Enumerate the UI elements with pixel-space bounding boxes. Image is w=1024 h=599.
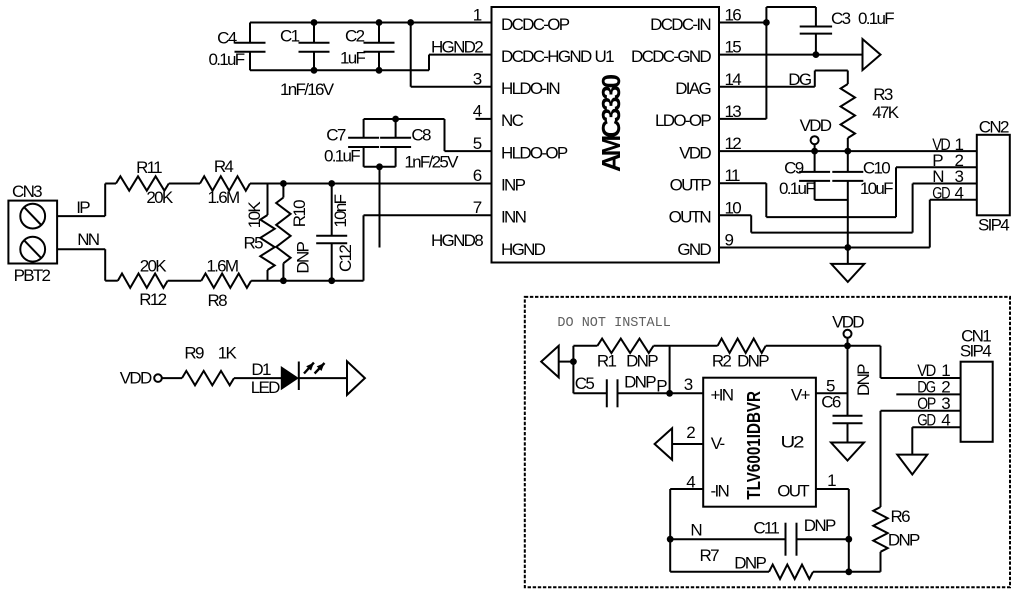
svg-text:HLDO-IN: HLDO-IN (501, 79, 559, 98)
svg-text:C4: C4 (217, 29, 237, 48)
svg-text:20K: 20K (146, 188, 174, 207)
svg-text:3: 3 (684, 375, 693, 394)
svg-text:13: 13 (725, 102, 742, 121)
svg-text:1.6M: 1.6M (206, 256, 238, 275)
svg-text:NN: NN (77, 230, 99, 249)
svg-text:DCDC-OP: DCDC-OP (501, 15, 570, 34)
svg-text:P: P (656, 377, 667, 396)
svg-text:47K: 47K (872, 103, 900, 122)
svg-text:CN3: CN3 (12, 182, 42, 201)
svg-text:4: 4 (955, 183, 964, 202)
svg-text:3: 3 (473, 70, 482, 89)
svg-text:OUTN: OUTN (669, 208, 711, 227)
svg-text:DNP: DNP (734, 553, 766, 572)
svg-text:HGND: HGND (501, 240, 546, 259)
svg-text:LDO-OP: LDO-OP (655, 111, 711, 130)
svg-text:R8: R8 (208, 291, 228, 310)
svg-text:R4: R4 (214, 157, 234, 176)
svg-text:DCDC-HGND: DCDC-HGND (501, 47, 592, 66)
svg-text:10uF: 10uF (860, 179, 893, 198)
svg-text:C7: C7 (326, 125, 346, 144)
svg-text:C10: C10 (863, 158, 890, 177)
svg-text:4: 4 (686, 473, 695, 492)
svg-text:1nF/25V: 1nF/25V (404, 153, 459, 172)
svg-text:INP: INP (501, 176, 526, 195)
svg-text:9: 9 (725, 231, 734, 250)
svg-text:1: 1 (473, 5, 482, 24)
svg-text:GD: GD (917, 410, 936, 429)
svg-text:DNP: DNP (624, 373, 656, 392)
svg-text:7: 7 (473, 198, 482, 217)
svg-text:15: 15 (725, 38, 742, 57)
svg-text:VDD: VDD (120, 368, 152, 387)
svg-text:R9: R9 (184, 344, 204, 363)
svg-text:R11: R11 (136, 158, 162, 177)
svg-text:C2: C2 (345, 27, 365, 46)
svg-text:14: 14 (725, 70, 742, 89)
svg-text:R12: R12 (139, 290, 166, 309)
svg-text:0.1uF: 0.1uF (779, 179, 815, 198)
svg-text:C11: C11 (753, 519, 779, 538)
svg-text:HGND8: HGND8 (431, 231, 483, 250)
svg-text:C8: C8 (411, 125, 431, 144)
svg-text:DNP: DNP (888, 530, 920, 549)
svg-text:VDD: VDD (679, 143, 711, 162)
svg-text:4: 4 (473, 102, 482, 121)
svg-text:5: 5 (473, 134, 482, 153)
svg-text:U2: U2 (781, 433, 804, 452)
svg-text:12: 12 (725, 134, 742, 153)
svg-text:1uF: 1uF (340, 48, 366, 67)
svg-text:HGND2: HGND2 (431, 37, 483, 56)
svg-text:C12: C12 (336, 245, 355, 272)
svg-text:1nF/16V: 1nF/16V (280, 80, 335, 99)
svg-text:5: 5 (826, 376, 835, 395)
svg-text:0.1uF: 0.1uF (858, 9, 894, 28)
svg-text:V+: V+ (791, 385, 811, 404)
svg-text:C3: C3 (831, 9, 851, 28)
svg-text:11: 11 (725, 166, 740, 185)
svg-text:20K: 20K (140, 256, 168, 275)
svg-text:V-: V- (711, 434, 725, 453)
svg-text:OUTP: OUTP (670, 176, 712, 195)
svg-text:1K: 1K (218, 344, 238, 363)
svg-text:VDD: VDD (832, 312, 864, 331)
svg-text:DIAG: DIAG (675, 79, 710, 98)
svg-text:HLDO-OP: HLDO-OP (501, 143, 568, 162)
svg-text:16: 16 (725, 6, 742, 25)
svg-text:U1: U1 (595, 47, 615, 66)
svg-text:DNP: DNP (293, 241, 312, 273)
svg-text:INN: INN (501, 208, 526, 227)
svg-text:DNP: DNP (626, 352, 658, 371)
svg-text:R6: R6 (891, 507, 911, 526)
svg-text:R7: R7 (700, 546, 720, 565)
svg-text:GND: GND (677, 240, 711, 259)
svg-text:0.1uF: 0.1uF (324, 147, 360, 166)
svg-text:IP: IP (76, 198, 90, 217)
svg-text:VDD: VDD (800, 116, 832, 135)
svg-text:CN2: CN2 (979, 118, 1009, 137)
svg-text:R3: R3 (873, 85, 893, 104)
svg-text:N: N (690, 521, 701, 540)
svg-text:LED: LED (251, 378, 280, 397)
svg-text:SIP4: SIP4 (978, 215, 1009, 234)
svg-text:OUT: OUT (777, 482, 809, 501)
svg-text:10nF: 10nF (331, 194, 350, 227)
svg-text:10K: 10K (245, 201, 264, 229)
svg-text:+IN: +IN (711, 385, 733, 404)
svg-text:DG: DG (788, 70, 811, 89)
svg-text:DO NOT INSTALL: DO NOT INSTALL (557, 316, 670, 331)
svg-text:6: 6 (473, 166, 482, 185)
svg-text:10: 10 (725, 198, 742, 217)
svg-text:4: 4 (941, 410, 950, 429)
svg-text:DNP: DNP (804, 516, 836, 535)
svg-text:2: 2 (686, 423, 695, 442)
svg-text:R2: R2 (712, 352, 732, 371)
svg-text:DNP: DNP (854, 364, 873, 396)
svg-text:1.6M: 1.6M (208, 188, 240, 207)
svg-text:-IN: -IN (711, 482, 729, 501)
svg-text:C9: C9 (784, 158, 804, 177)
svg-text:1: 1 (827, 471, 836, 490)
svg-text:DCDC-GND: DCDC-GND (631, 47, 711, 66)
svg-text:DCDC-IN: DCDC-IN (650, 15, 710, 34)
svg-text:D1: D1 (251, 360, 271, 379)
svg-text:TLV6001IDBVR: TLV6001IDBVR (744, 391, 764, 500)
svg-text:DNP: DNP (737, 352, 769, 371)
svg-text:GD: GD (932, 183, 950, 202)
svg-text:NC: NC (501, 111, 524, 130)
svg-text:R1: R1 (597, 352, 617, 371)
svg-text:C6: C6 (821, 393, 841, 412)
svg-text:R10: R10 (290, 200, 309, 227)
svg-text:AMC3330: AMC3330 (596, 74, 626, 172)
svg-text:SIP4: SIP4 (960, 341, 991, 360)
svg-text:0.1uF: 0.1uF (209, 50, 245, 69)
svg-text:C1: C1 (280, 27, 300, 46)
svg-text:PBT2: PBT2 (14, 266, 51, 285)
svg-text:C5: C5 (575, 374, 595, 393)
svg-text:R5: R5 (244, 234, 264, 253)
